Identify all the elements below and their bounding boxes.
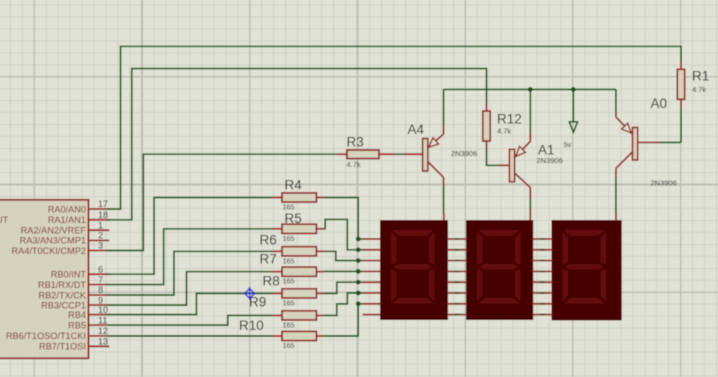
- svg-text:RB1/RX/DT: RB1/RX/DT: [38, 280, 86, 290]
- svg-text:R3: R3: [347, 135, 364, 150]
- svg-text:RB5: RB5: [68, 320, 86, 330]
- svg-text:RB3/CCP1: RB3/CCP1: [41, 300, 86, 310]
- svg-text:7: 7: [98, 275, 103, 285]
- svg-text:RA3/AN3/CMP1: RA3/AN3/CMP1: [20, 236, 86, 246]
- svg-text:9: 9: [98, 295, 103, 305]
- svg-text:165: 165: [283, 277, 295, 286]
- svg-text:1: 1: [98, 220, 103, 230]
- svg-text:RB7/T1OSI: RB7/T1OSI: [39, 342, 86, 352]
- svg-text:8: 8: [98, 285, 103, 295]
- svg-text:R12: R12: [497, 112, 522, 127]
- svg-text:RB2/TX/CK: RB2/TX/CK: [39, 290, 87, 300]
- svg-text:13: 13: [98, 337, 108, 347]
- svg-text:11: 11: [98, 315, 107, 325]
- svg-text:R1: R1: [692, 69, 709, 84]
- svg-text:2N3906: 2N3906: [651, 178, 677, 187]
- svg-text:4.7k: 4.7k: [692, 85, 706, 94]
- svg-text:R4: R4: [285, 178, 303, 193]
- svg-text:17: 17: [98, 199, 108, 209]
- svg-text:RB4: RB4: [68, 310, 86, 320]
- svg-text:165: 165: [283, 256, 295, 265]
- svg-text:10: 10: [98, 305, 108, 315]
- svg-text:RB0/INT: RB0/INT: [51, 270, 87, 280]
- svg-text:UT: UT: [0, 215, 9, 225]
- svg-text:R10: R10: [239, 318, 264, 333]
- svg-text:12: 12: [98, 326, 108, 336]
- svg-text:2N3906: 2N3906: [451, 149, 477, 158]
- svg-text:A4: A4: [408, 122, 425, 137]
- svg-text:RA1/AN1: RA1/AN1: [48, 215, 86, 225]
- svg-text:RA2/AN2/VREF: RA2/AN2/VREF: [21, 226, 87, 236]
- svg-text:165: 165: [283, 320, 295, 329]
- svg-text:RA4/T0CKI/CMP2: RA4/T0CKI/CMP2: [11, 246, 86, 256]
- svg-text:4.7k: 4.7k: [347, 160, 361, 169]
- svg-text:6: 6: [98, 264, 103, 274]
- svg-text:R5: R5: [285, 211, 302, 226]
- svg-text:2N3906: 2N3906: [537, 156, 563, 165]
- svg-text:R6: R6: [260, 233, 277, 248]
- svg-text:4.7k: 4.7k: [497, 127, 511, 136]
- svg-text:5v: 5v: [564, 140, 572, 149]
- svg-text:165: 165: [283, 234, 295, 243]
- svg-text:2: 2: [98, 231, 103, 241]
- svg-text:R8: R8: [263, 274, 280, 289]
- svg-text:165: 165: [283, 341, 295, 350]
- svg-text:RB6/T1OSO/T1CKI: RB6/T1OSO/T1CKI: [6, 331, 86, 341]
- svg-text:RA0/AN0: RA0/AN0: [48, 204, 86, 214]
- svg-text:A0: A0: [651, 96, 668, 111]
- svg-text:3: 3: [98, 241, 103, 251]
- svg-text:R7: R7: [260, 252, 277, 267]
- svg-text:165: 165: [283, 298, 295, 307]
- svg-text:18: 18: [98, 210, 108, 220]
